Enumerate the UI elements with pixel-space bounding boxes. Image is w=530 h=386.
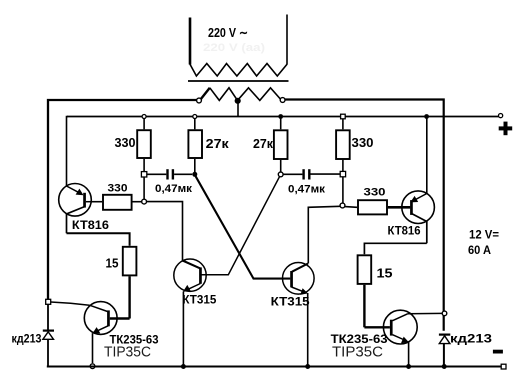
terminal minus square — [501, 364, 506, 369]
svg-text:27к: 27к — [206, 136, 230, 151]
transistor Q6 TIP35C right — [364, 310, 417, 366]
svg-text:15: 15 — [106, 256, 119, 271]
node: Q6 emitter on bus (filled dot) — [406, 364, 411, 369]
wire: right winding end to right rail — [285, 100, 444, 331]
svg-text:0,47мк: 0,47мк — [155, 183, 193, 195]
diode D1 kd213 left — [43, 331, 54, 367]
node: emitter feed of KT816R (filled dot) — [424, 114, 429, 119]
svg-text:TIP35C: TIP35C — [332, 345, 383, 361]
resistor R3 27k vertical right — [274, 117, 288, 173]
wire: node F to KT315R collector (corner) — [308, 206, 340, 263]
resistor R8 15 right — [358, 255, 372, 327]
transistor Q1 KT816 left — [59, 184, 92, 234]
svg-text:27к: 27к — [253, 136, 273, 151]
node: KT315L emitter on bus (filled dot) — [181, 364, 186, 369]
transformer core — [188, 80, 289, 82]
terminal + circle — [499, 114, 503, 118]
wire: node D down to right base node circle — [342, 177, 344, 203]
svg-text:330: 330 — [108, 183, 128, 195]
transistor Q4 KT315 right — [283, 263, 315, 367]
wire: minus bus bottom — [47, 365, 504, 367]
capacitor C2 0,47uF right — [283, 169, 340, 179]
svg-text:15: 15 — [377, 266, 393, 281]
node: Q5 emitter on bus (open circle) — [90, 364, 95, 369]
label minus — [493, 350, 503, 354]
node D: R4 bottom square — [340, 171, 345, 176]
resistor R6 330 horizontal right — [345, 200, 410, 214]
wire: KT816R collector corner to R8 — [364, 243, 426, 254]
diode D2 kd213 right — [439, 335, 450, 367]
resistor R2 27k vertical left — [188, 119, 202, 175]
node: KT315R emitter on bus (filled dot) — [305, 364, 310, 369]
svg-text:60 A: 60 A — [468, 243, 491, 257]
node C: R3 bottom (open circle) — [278, 172, 283, 177]
wire: rail between node and diode — [47, 304, 49, 330]
resistor R5 330 horizontal left — [91, 195, 141, 210]
transformer T1 secondary — [197, 88, 285, 103]
node F: base node circle right — [340, 203, 345, 208]
svg-text:0,47мк: 0,47мк — [288, 183, 326, 195]
transistor Q2 KT816 right — [402, 191, 435, 243]
svg-text:330: 330 — [115, 135, 136, 150]
transistor Q5 TIP35C left — [84, 302, 129, 363]
svg-text:220 V (aa): 220 V (aa) — [203, 42, 265, 54]
wire: diagonal cross B to KT315R base — [195, 175, 290, 279]
wire: node E to KT315L collector (corner) — [147, 202, 183, 261]
node A: R1 bottom square — [141, 172, 146, 177]
svg-text:КТ816: КТ816 — [388, 224, 421, 238]
node B: R2 bottom (filled dot) — [192, 172, 197, 177]
wire: +12V bus — [67, 116, 499, 118]
wire: dot down to KT816R emitter — [426, 117, 428, 194]
svg-text:КТ315: КТ315 — [182, 293, 216, 307]
node: top of R2 (open circle) — [193, 115, 197, 119]
node: top of R1 (open circle) — [142, 115, 146, 119]
transistor Q3 KT315 left — [174, 259, 206, 367]
wire: Q6 collector to right rail node — [408, 312, 442, 314]
resistor R7 15 left — [123, 247, 137, 319]
svg-text:кд213: кд213 — [450, 332, 492, 346]
node: top of R4 (open square) — [341, 114, 346, 119]
node: D2 anode on bus (filled dot) — [442, 364, 447, 369]
node: left rail collector node (open square) — [46, 299, 51, 304]
wire: left winding end to left rail (thick) — [48, 100, 197, 300]
wire: center tap down — [237, 102, 239, 117]
svg-text:330: 330 — [364, 187, 386, 199]
svg-text:220 V ∼: 220 V ∼ — [208, 25, 248, 40]
resistor R4 330 vertical right — [336, 119, 350, 172]
label plus — [499, 122, 513, 136]
capacitor C1 0,47uF left — [147, 169, 192, 179]
svg-text:12 V=: 12 V= — [469, 228, 499, 242]
svg-text:КТ816: КТ816 — [72, 218, 109, 232]
svg-text:КТ315: КТ315 — [271, 295, 310, 309]
svg-text:TIP35C: TIP35C — [104, 345, 151, 361]
wire: KT816L collector corner to R7 — [67, 233, 130, 246]
resistor R1 330 vertical left — [137, 119, 151, 173]
node: right rail collector node (open circle) — [442, 311, 447, 316]
transformer T1 primary — [190, 15, 287, 77]
wire: node A down to base node circle — [143, 177, 145, 199]
node: top of R3 (filled dot) — [278, 114, 283, 119]
wire: bus corner down to KT816L emitter — [66, 117, 69, 187]
svg-text:330: 330 — [352, 135, 374, 150]
node E: base node circle left — [142, 199, 147, 204]
wire: rail node to Q5 collector — [51, 302, 90, 305]
wire: diagonal cross A to KT315L base — [202, 176, 280, 274]
svg-text:кд213: кд213 — [12, 332, 42, 346]
